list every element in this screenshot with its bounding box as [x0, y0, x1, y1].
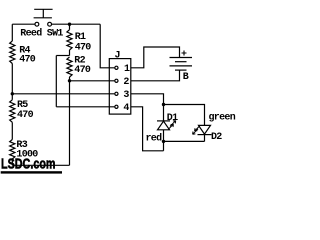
D2 arrow 1: [193, 129, 198, 134]
battery + sign: [182, 51, 187, 56]
pin 1 circle: [115, 66, 118, 69]
wire left rail upper: [11, 24, 13, 41]
svg-text:4: 4: [123, 103, 129, 114]
wire left rail bottom: [11, 159, 13, 165]
wire R1 bottom stub: [69, 50, 71, 56]
battery plate3 long: [170, 65, 193, 67]
svg-text:LSDC.com: LSDC.com: [1, 155, 56, 172]
switch SW1 plunger: [34, 9, 53, 17]
svg-text:3: 3: [123, 90, 129, 101]
pin 4 circle: [115, 105, 118, 108]
connector J box: [109, 59, 131, 115]
LED D1 bar: [157, 120, 170, 122]
switch contact right: [48, 22, 52, 26]
wire switch to corner: [52, 23, 101, 25]
svg-text:470: 470: [19, 54, 36, 65]
resistor R5: [10, 100, 15, 123]
resistor R1: [67, 30, 72, 50]
wire R2 bottom stub: [69, 77, 71, 81]
svg-text:470: 470: [74, 65, 91, 76]
wire red LED cathode down: [163, 130, 165, 151]
wire pin4 left: [56, 106, 114, 108]
wire red LED anode: [163, 105, 165, 121]
wire battery - to pin2: [131, 70, 180, 81]
wire R1-R2 junction left: [56, 55, 69, 57]
resistor R3: [10, 140, 15, 160]
svg-text:1: 1: [124, 64, 130, 75]
junction LED bottom rail: [162, 140, 165, 143]
battery B plate1 long: [170, 57, 193, 59]
wire pin4 right to LED bottom: [131, 107, 164, 151]
svg-text:2: 2: [123, 77, 129, 88]
LED D2 bar: [198, 134, 212, 136]
logo underline: [1, 171, 62, 173]
svg-text:D1: D1: [167, 113, 178, 124]
svg-text:green: green: [209, 113, 236, 124]
resistor R2: [67, 57, 72, 77]
svg-text:R1: R1: [75, 32, 86, 43]
junction node A: [68, 23, 71, 26]
wire top left rail to switch: [12, 23, 35, 25]
junction R2 pin2: [68, 79, 71, 82]
svg-text:470: 470: [17, 110, 34, 121]
wire bottom: [12, 164, 69, 166]
svg-text:red: red: [146, 132, 163, 144]
switch contact left: [35, 22, 39, 26]
pin 2 circle: [115, 79, 118, 82]
wire LED bottom rail: [164, 140, 205, 142]
wire pin3 right to LED rail: [131, 94, 205, 126]
junction left rail pin3: [11, 92, 14, 95]
svg-text:470: 470: [75, 43, 92, 54]
svg-text:B: B: [183, 72, 189, 83]
D1 arrow 2: [168, 124, 173, 129]
wire R2 node down to bottom: [69, 81, 71, 166]
wire left rail lower: [11, 122, 13, 139]
pin 3 circle: [115, 92, 118, 95]
wire corner down to pin1: [100, 24, 114, 68]
wire pin1 right to battery +: [131, 47, 180, 68]
svg-text:J: J: [115, 51, 120, 62]
D2 arrow 2: [195, 126, 200, 131]
LED D1 triangle: [158, 121, 170, 130]
wire green LED to rail: [204, 135, 206, 142]
wire left rail mid: [11, 64, 13, 100]
wire pin2 left: [70, 80, 115, 82]
svg-text:D2: D2: [211, 132, 222, 143]
svg-text:Reed SW1: Reed SW1: [20, 28, 63, 40]
battery plate4 short: [175, 69, 187, 71]
wire pin3 left: [12, 93, 114, 95]
LED D2 triangle: [199, 125, 211, 134]
resistor R4: [10, 41, 15, 64]
junction LED top rail: [162, 103, 165, 106]
D1 arrow 1: [170, 121, 176, 127]
wire down to pin4: [55, 56, 57, 107]
wire node A stub: [69, 24, 71, 30]
battery plate2 short: [175, 61, 187, 63]
